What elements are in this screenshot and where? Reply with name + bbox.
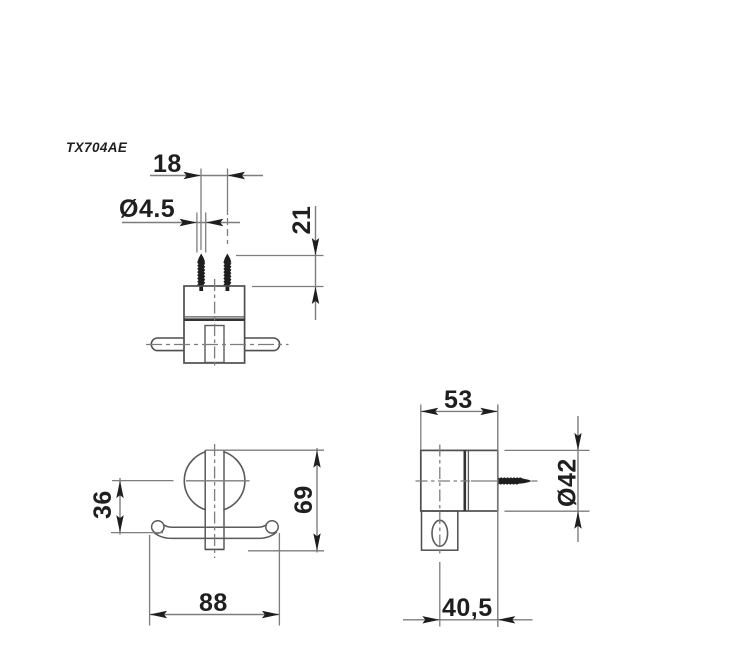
side screw — [498, 477, 532, 485]
svg-text:TX704AE: TX704AE — [66, 140, 128, 155]
front horizontal centerline — [186, 480, 250, 482]
dimension 69 arrows — [313, 450, 320, 468]
inner boss rectangle — [205, 326, 224, 363]
svg-text:36: 36 — [89, 490, 117, 519]
dimension Ø42 arrows — [574, 433, 581, 451]
svg-text:18: 18 — [153, 150, 182, 178]
dimension 40,5 line — [403, 619, 533, 621]
section joint thin line — [184, 316, 245, 318]
dimension 69 bottom extension — [248, 550, 324, 552]
dimension 36 bottom extension — [111, 532, 163, 534]
dimension 21 line — [315, 206, 317, 320]
dimension 88 line — [150, 614, 280, 616]
wall plate outline — [422, 511, 458, 550]
right arm tab (plan) — [245, 338, 280, 351]
hook right end cap — [266, 521, 278, 533]
post bottom edge — [205, 548, 225, 550]
dimension 18 arrows — [184, 172, 202, 179]
horizontal centerline (plan) — [146, 344, 289, 346]
post white fill — [206, 450, 223, 550]
svg-text:69: 69 — [290, 485, 318, 514]
right screw thread — [223, 254, 231, 292]
dimension 53 line — [421, 410, 498, 412]
hook bar bottom line — [153, 532, 277, 539]
left screw thread — [197, 254, 205, 292]
extension below plate — [439, 562, 441, 627]
dimension Ø42 line — [577, 416, 579, 542]
dimension Ø4.5 arrows — [180, 219, 198, 226]
dimension Ø42 top extension — [505, 449, 590, 451]
extension line body top level — [252, 286, 324, 288]
extension line screw tip level — [236, 255, 324, 257]
post left edge — [204, 450, 206, 549]
dimension 36 arrows — [116, 481, 123, 499]
svg-text:88: 88 — [199, 589, 228, 617]
extension line right screw — [227, 169, 229, 216]
dimension 53 arrows — [421, 408, 439, 415]
dimension 69 line — [316, 448, 318, 553]
dimension Ø4.5 leader line — [122, 222, 240, 224]
side vertical centerline — [439, 445, 441, 557]
side body outline — [421, 450, 498, 511]
dimension 36 top extension — [112, 480, 174, 482]
side joint thin line — [467, 450, 469, 511]
front vertical centerline — [214, 444, 216, 558]
dimension 88 left extension — [149, 535, 151, 626]
hook bar top line — [163, 525, 267, 528]
svg-text:Ø42: Ø42 — [554, 458, 582, 507]
svg-text:40,5: 40,5 — [442, 594, 493, 622]
dimension 53 left extension — [420, 405, 422, 451]
dimension 21 arrows — [312, 238, 319, 256]
dimension Ø42 bottom extension — [505, 510, 590, 512]
dimension 88 right extension — [278, 533, 280, 626]
extension line left screw — [200, 169, 202, 251]
round flange circle — [184, 451, 245, 512]
section thick line — [184, 318, 245, 321]
hook left end cap — [152, 521, 164, 533]
svg-text:Ø4.5: Ø4.5 — [119, 195, 175, 223]
left arm tab (plan) — [151, 338, 184, 351]
svg-text:53: 53 — [444, 386, 473, 414]
dimension 69 top extension — [205, 449, 324, 451]
long right edge line — [497, 405, 499, 628]
slot ellipse — [432, 520, 448, 546]
svg-text:21: 21 — [288, 206, 316, 235]
side section thick line — [463, 450, 466, 511]
side horizontal centerline — [416, 480, 471, 482]
post right edge — [223, 450, 225, 549]
vertical centerline (plan) — [214, 279, 216, 368]
dimension 40,5 arrows — [422, 616, 440, 623]
hook body outline (plan view) — [184, 286, 245, 363]
dimension 88 arrows — [150, 611, 168, 618]
dimension 18 line — [150, 175, 263, 177]
dimension 36 line — [119, 478, 121, 535]
left screw shaft — [196, 213, 198, 253]
